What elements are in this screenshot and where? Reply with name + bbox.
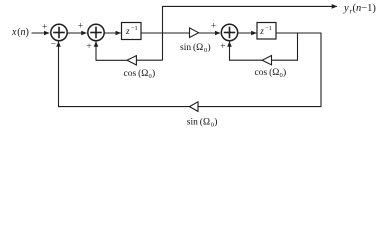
svg-text:cos (Ω: cos (Ω	[124, 68, 149, 79]
svg-text:z: z	[125, 26, 130, 36]
cos loop2 bottom wire right segment	[272, 59, 299, 61]
label cos(Omega0) loop2	[255, 67, 287, 79]
outer loop right vertical wire	[320, 33, 322, 107]
outer loop bottom rail left segment	[59, 106, 190, 108]
delay block z^-1 box2	[257, 23, 276, 40]
svg-text:−1: −1	[265, 25, 272, 32]
label cos(Omega0) loop1	[124, 68, 156, 80]
svg-text:−: −	[51, 40, 56, 50]
label sin(Omega0) outer loop	[187, 116, 218, 128]
wire adder1 to adder2	[67, 32, 86, 34]
svg-text:+: +	[220, 42, 225, 52]
outer loop left vertical up into adder1	[58, 42, 60, 108]
wire adder2 to delay box1	[104, 32, 120, 34]
svg-text:): )	[214, 116, 217, 127]
svg-text:cos (Ω: cos (Ω	[255, 67, 280, 78]
output label y_r(n-1)	[343, 3, 376, 16]
gain triangle cos loop2	[262, 56, 271, 65]
wire box2 to outer corner	[276, 32, 322, 34]
wire box1 to sin gain	[141, 32, 190, 34]
delay block z^-1 box1	[122, 23, 142, 40]
outer loop bottom rail right segment	[198, 106, 322, 108]
svg-text:z: z	[259, 26, 264, 36]
svg-text:): )	[152, 68, 155, 79]
wire sin gain to adder3	[199, 32, 220, 34]
svg-text:(n): (n)	[17, 27, 29, 38]
wire input arrow into adder1	[32, 32, 50, 34]
cos loop1 bottom wire right segment	[136, 59, 162, 61]
summing junction adder2	[88, 24, 104, 40]
cos loop2 vertical up into adder3	[229, 42, 231, 61]
svg-text:+: +	[211, 22, 216, 32]
svg-text:+: +	[42, 23, 47, 33]
gain triangle sin forward path	[190, 28, 199, 38]
svg-text:+: +	[78, 21, 83, 31]
svg-text:sin (Ω: sin (Ω	[187, 116, 210, 127]
cos loop2 bottom wire left segment	[230, 59, 263, 61]
cos loop2 tap vertical wire	[297, 33, 299, 60]
summing junction adder1	[51, 24, 67, 40]
label sin(Omega0) forward	[180, 42, 211, 54]
svg-text:sin (Ω: sin (Ω	[180, 42, 203, 53]
cos loop1 bottom wire left segment	[96, 59, 127, 61]
svg-text:x: x	[11, 27, 17, 38]
svg-text:−1: −1	[131, 25, 138, 32]
cos loop1 vertical up into adder2	[95, 42, 97, 61]
wire tap vertical (output branch and cos loop1 branch)	[162, 6, 164, 60]
svg-text:y: y	[343, 3, 349, 14]
top output rail wire	[162, 5, 337, 7]
svg-text:): )	[208, 42, 211, 53]
svg-text:+: +	[86, 42, 91, 52]
wire adder3 to delay box2	[238, 32, 256, 34]
gain triangle sin outer loop	[189, 102, 198, 112]
svg-text:): )	[283, 67, 286, 78]
svg-text:(n−1): (n−1)	[353, 3, 376, 14]
summing junction adder3	[221, 24, 237, 40]
gain triangle cos loop1	[127, 56, 136, 65]
